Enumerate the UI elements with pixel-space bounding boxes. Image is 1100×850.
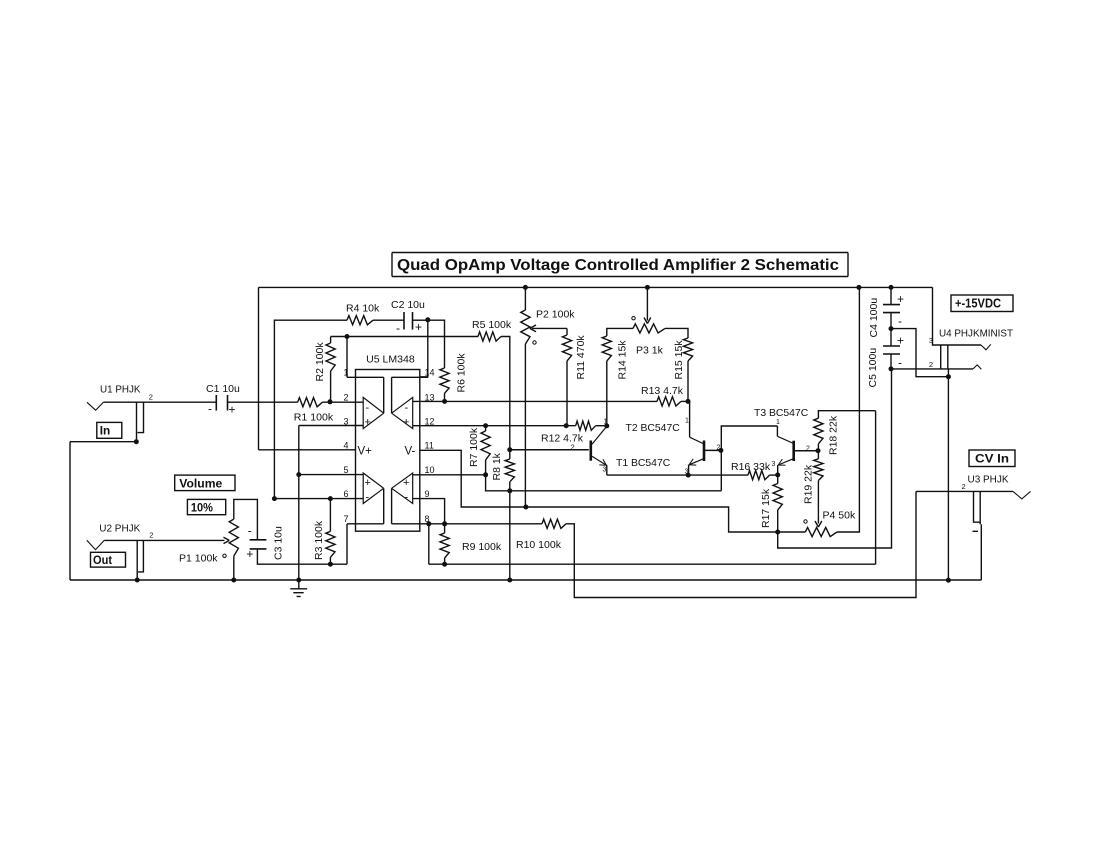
wire R10 row — [429, 523, 542, 525]
junction on top bus at C4 — [889, 285, 894, 290]
wire R7 bottom lead — [485, 460, 487, 475]
box CV In label — [969, 450, 1015, 467]
wire U4 pin3 — [933, 287, 982, 345]
wire T1 base row — [510, 449, 589, 451]
wire R8 bottom drop — [509, 491, 511, 580]
svg-text:-: - — [898, 314, 902, 328]
svg-text:1: 1 — [776, 419, 780, 426]
svg-text:C5 100u: C5 100u — [867, 348, 879, 388]
wire R9 top lead — [444, 524, 446, 533]
junction R9 bottom — [442, 562, 447, 567]
resistor R15 — [683, 338, 692, 361]
transistor T3 emitter — [778, 459, 794, 465]
wire T2 emitter lead — [688, 465, 690, 475]
wire P4 left lead — [778, 531, 806, 533]
wire R18 bottom lead — [817, 444, 819, 451]
resistor R8 — [505, 459, 514, 482]
U4 contact bar left — [940, 345, 942, 369]
junction C4/C5 mid — [889, 326, 894, 331]
T2 base stub — [704, 449, 721, 451]
P1 wiper mark — [223, 554, 226, 557]
P2 wiper arrow — [532, 327, 567, 329]
junction R8 bottom — [507, 488, 512, 493]
svg-text:-: - — [208, 402, 212, 416]
T3 base stub — [794, 450, 818, 452]
svg-text:R15 15k: R15 15k — [673, 340, 685, 380]
wire pin4 V+ row — [259, 449, 356, 451]
svg-text:+: + — [365, 477, 371, 489]
junction T2 base — [718, 448, 723, 453]
svg-text:+-15VDC: +-15VDC — [955, 297, 1001, 311]
U3 contact bar right — [979, 491, 981, 524]
svg-text:CV In: CV In — [975, 452, 1009, 466]
wire pin8 riser right — [875, 411, 877, 565]
U5 pin7 stub — [347, 523, 384, 525]
svg-text:+: + — [897, 334, 904, 348]
wire pin11 V- run — [420, 450, 778, 532]
junction R5/R8/T1 base — [507, 447, 512, 452]
wire R7 top lead — [485, 426, 487, 431]
svg-text:3: 3 — [603, 467, 607, 474]
svg-text:R13 4.7k: R13 4.7k — [641, 385, 684, 397]
junction ground on bus — [296, 578, 301, 583]
wire P1 top to C3 — [234, 499, 258, 539]
junction R17 bottom — [775, 530, 780, 535]
wire pin1 riser — [346, 337, 348, 378]
resistor R11 — [562, 335, 571, 361]
transistor T1 base bar — [589, 441, 592, 461]
svg-text:P1 100k: P1 100k — [179, 553, 218, 565]
resistor R5 — [478, 332, 501, 341]
wire T2 base riser — [721, 426, 777, 491]
capacitor C1 — [215, 395, 217, 411]
svg-text:14: 14 — [425, 368, 435, 378]
wire bus left drop to pin4 — [258, 287, 260, 449]
svg-text:-: - — [405, 402, 409, 414]
wire T1 emitter lead — [606, 465, 608, 475]
junction C2/pin14 — [425, 317, 430, 322]
junction CV/ground bus — [946, 578, 951, 583]
svg-text:1: 1 — [604, 419, 608, 426]
junction R16/T3/R17 — [775, 472, 780, 477]
junction P1 on bus — [231, 578, 236, 583]
potentiometer P2 — [521, 310, 530, 344]
wire pin8 lower run — [429, 563, 876, 565]
wire pin9 row — [413, 499, 445, 524]
resistor R17 — [773, 484, 782, 511]
connector U4 sleeve mark — [973, 365, 981, 369]
wire C1 to R1 — [228, 401, 298, 403]
svg-text:R5 100k: R5 100k — [472, 319, 512, 331]
box +-15VDC — [951, 295, 1013, 312]
P4 wiper arrow — [817, 481, 819, 524]
svg-text:2: 2 — [929, 360, 933, 369]
svg-text:R2 100k: R2 100k — [314, 342, 326, 382]
P4 wiper mark — [804, 520, 807, 523]
svg-text:P2 100k: P2 100k — [536, 309, 575, 321]
connector U1 jack mark — [87, 402, 103, 410]
svg-text:+: + — [897, 292, 904, 306]
wire In ground run — [70, 441, 137, 443]
svg-text:R9 100k: R9 100k — [462, 541, 502, 553]
potentiometer P3 — [633, 324, 665, 333]
wire R2-R5 row — [331, 336, 478, 338]
svg-text:R7 100k: R7 100k — [468, 427, 480, 467]
wire ground bus — [70, 579, 981, 581]
junction R11 bottom — [564, 423, 569, 428]
svg-text:+: + — [415, 320, 422, 334]
svg-text:+: + — [403, 477, 409, 489]
svg-text:13: 13 — [425, 392, 435, 402]
wire node to R6 top — [428, 320, 445, 368]
junction R1/R2 — [328, 399, 333, 404]
op-amp D triangle — [392, 397, 413, 428]
wire mid tap right — [891, 329, 948, 377]
svg-text:R17 15k: R17 15k — [760, 488, 772, 528]
junction pin6 corner — [272, 496, 277, 501]
junction R8 net on bus — [507, 578, 512, 583]
svg-text:6: 6 — [343, 489, 348, 499]
capacitor C3 — [250, 539, 267, 541]
svg-text:-: - — [366, 492, 370, 504]
svg-text:In: In — [100, 424, 111, 438]
wire R6 bottom lead — [444, 393, 446, 401]
resistor R10 — [542, 519, 566, 528]
wire R2 bottom lead — [330, 371, 332, 401]
wire R14 top lead — [607, 328, 633, 336]
svg-text:2: 2 — [343, 392, 348, 402]
U4 contact bar right — [947, 345, 949, 369]
junction R7 bottom — [483, 472, 488, 477]
transistor T3 base bar — [792, 441, 795, 461]
wire C4 to C5 — [890, 313, 892, 346]
U5 out column D — [391, 377, 393, 413]
svg-text:-: - — [366, 402, 370, 414]
P3 wiper arrow — [646, 287, 648, 320]
junction R3 bottom — [328, 562, 333, 567]
resistor R14 — [602, 336, 611, 361]
wire R7bot jog — [486, 475, 722, 491]
svg-text:10%: 10% — [191, 501, 213, 515]
svg-text:5: 5 — [343, 465, 348, 475]
wire R2 top lead — [330, 337, 332, 344]
label U3 pin1 number — [973, 530, 979, 532]
U5 pin14 stub — [392, 376, 428, 378]
op-amp A triangle — [363, 397, 384, 428]
wire P2 bottom lead — [524, 344, 526, 507]
svg-text:C1 10u: C1 10u — [206, 383, 240, 395]
resistor R2 — [326, 343, 335, 371]
wire CV feed run — [778, 369, 892, 548]
svg-text:R19 22k: R19 22k — [803, 464, 815, 504]
U5 out column B — [383, 488, 385, 524]
U2 contact bar left — [136, 540, 138, 580]
svg-text:R16 33k: R16 33k — [731, 461, 771, 473]
svg-text:2: 2 — [149, 393, 153, 402]
svg-text:1: 1 — [685, 418, 689, 425]
wire R10 right lead — [566, 491, 916, 597]
junction pin8 node — [426, 521, 431, 526]
svg-text:Volume: Volume — [179, 477, 222, 491]
svg-text:7: 7 — [343, 514, 348, 524]
wire R3 top lead — [329, 499, 331, 532]
svg-text:+: + — [229, 403, 236, 417]
svg-text:U3 PHJK: U3 PHJK — [968, 474, 1009, 486]
wire R12 right lead — [596, 425, 607, 427]
svg-text:T3 BC547C: T3 BC547C — [754, 407, 809, 419]
svg-text:P4 50k: P4 50k — [823, 510, 856, 522]
connector U2 jack mark — [87, 540, 105, 549]
resistor R12 — [576, 421, 596, 430]
junction on top bus at P2 — [523, 285, 528, 290]
junction on top bus at P3 wiper — [645, 285, 650, 290]
wire R8 top lead — [509, 450, 511, 459]
resistor R1 — [298, 398, 323, 407]
wire pin6 row — [274, 498, 363, 500]
wire pin5 row — [299, 474, 363, 476]
wire T3 emitter lead — [777, 465, 779, 475]
svg-text:U5 LM348: U5 LM348 — [366, 354, 415, 366]
svg-text:T1 BC547C: T1 BC547C — [616, 457, 671, 469]
resistor R9 — [440, 533, 449, 558]
wire P4 right lead — [837, 287, 859, 532]
wire P3 right lead — [665, 328, 688, 338]
svg-text:U2 PHJK: U2 PHJK — [99, 523, 140, 535]
wire pin13 row — [413, 400, 657, 402]
junction R9 top — [442, 521, 447, 526]
junction U2 bar on bus — [135, 578, 140, 583]
transistor T3 collector — [776, 426, 778, 436]
svg-text:4: 4 — [343, 441, 348, 451]
wire R13 right lead — [681, 400, 688, 402]
junction R6/pin13 — [442, 399, 447, 404]
svg-text:1: 1 — [343, 368, 348, 378]
svg-text:2: 2 — [962, 482, 966, 491]
svg-text:R4 10k: R4 10k — [346, 303, 380, 315]
wire left edge drop — [69, 442, 71, 580]
svg-text:R14 15k: R14 15k — [617, 340, 629, 380]
junction R13/R15/T2 — [686, 399, 691, 404]
svg-text:9: 9 — [425, 489, 430, 499]
wire pin3 ground drop — [298, 426, 300, 581]
resistor R19 — [814, 459, 823, 481]
wire U1 to C1 — [103, 401, 216, 403]
svg-text:R1 100k: R1 100k — [294, 412, 334, 424]
svg-text:R8 1k: R8 1k — [491, 452, 503, 480]
title box — [392, 253, 848, 277]
wire pin3 row — [299, 425, 363, 427]
P3 wiper mark — [632, 317, 635, 320]
wire R3 bottom lead — [329, 557, 331, 564]
resistor R4 — [347, 316, 373, 325]
svg-text:V+: V+ — [358, 446, 373, 458]
wire C2 to pin14 node — [413, 319, 428, 321]
wire R15 bottom lead — [687, 361, 689, 401]
wire +15V top bus — [259, 286, 933, 288]
U1 contact bar left — [136, 402, 138, 442]
svg-text:R18 22k: R18 22k — [828, 415, 840, 455]
svg-text:C3 10u: C3 10u — [273, 526, 285, 560]
svg-text:+: + — [365, 417, 371, 429]
wire R16 right lead — [770, 474, 778, 476]
wire R1 to pin2 — [322, 401, 363, 403]
box In label — [97, 422, 122, 438]
box Volume label — [175, 475, 235, 491]
wire R5 right drop — [501, 337, 510, 450]
svg-text:-: - — [396, 321, 400, 335]
svg-text:+: + — [403, 417, 409, 429]
U2 contact bar right — [138, 540, 143, 572]
svg-text:R11 470k: R11 470k — [575, 335, 587, 380]
resistor R13 — [657, 397, 681, 406]
svg-text:Out: Out — [93, 553, 112, 567]
wire R8 bottom lead — [509, 482, 511, 491]
U3 contact bar left — [974, 491, 981, 522]
junction T2 emitter — [686, 473, 691, 478]
wire R14 bottom lead — [606, 361, 608, 426]
wire C3 bottom / pin7 run — [257, 549, 347, 564]
box Out label — [91, 552, 126, 567]
connector U4 tip mark — [981, 344, 991, 350]
wire R18 top lead — [818, 411, 875, 419]
junction R7 top — [483, 423, 488, 428]
potentiometer P1 — [229, 519, 238, 556]
wire R11 top lead — [566, 328, 568, 335]
svg-text:U1 PHJK: U1 PHJK — [100, 384, 141, 396]
wire T2 collector lead — [689, 401, 691, 437]
wire pin10 row — [413, 474, 486, 476]
wire U3 pin2 row — [916, 490, 1013, 492]
resistor R6 — [440, 368, 449, 393]
capacitor C5 — [883, 345, 900, 347]
wire P2 top lead — [524, 287, 526, 310]
junction C5 bottom — [889, 366, 894, 371]
junction R12/R14/T1 — [604, 423, 609, 428]
svg-text:-: - — [248, 524, 252, 538]
wire ground below bus — [298, 580, 300, 589]
junction T3 base — [816, 448, 821, 453]
transistor T2 base bar — [703, 441, 706, 462]
P1 wiper arrow — [224, 537, 230, 540]
svg-text:2: 2 — [571, 445, 575, 452]
capacitor C4 — [883, 304, 900, 306]
junction pin5 tap — [296, 472, 301, 477]
wire R4 left lead — [274, 320, 347, 498]
svg-text:U4 PHJKMINIST: U4 PHJKMINIST — [939, 328, 1014, 340]
wire C5 bottom lead — [890, 354, 892, 369]
wire pin12 row — [413, 425, 576, 427]
wire R17 bottom lead — [777, 510, 779, 532]
P2 wiper mark — [533, 341, 536, 344]
svg-text:T2 BC547C: T2 BC547C — [626, 422, 681, 434]
resistor R3 — [326, 531, 335, 557]
wire R19 top lead — [817, 451, 819, 459]
junction on top bus right — [856, 285, 861, 290]
svg-text:3: 3 — [772, 461, 776, 468]
svg-text:3: 3 — [929, 336, 933, 345]
svg-text:P3 1k: P3 1k — [636, 345, 664, 357]
svg-text:V-: V- — [405, 446, 416, 458]
wire U3 to ground bus — [980, 524, 982, 580]
wire R17 top lead — [777, 475, 779, 484]
svg-text:11: 11 — [425, 441, 434, 451]
svg-text:C4 100u: C4 100u — [868, 298, 880, 338]
transistor T1 collector — [592, 426, 607, 444]
svg-text:Quad OpAmp Voltage Controlled: Quad OpAmp Voltage Controlled Amplifier … — [397, 257, 839, 274]
resistor R16 — [748, 471, 770, 480]
svg-text:-: - — [405, 492, 409, 504]
op-amp B triangle — [363, 473, 384, 504]
resistor R18 — [814, 418, 823, 444]
svg-text:-: - — [898, 356, 902, 370]
capacitor C2 — [403, 312, 405, 330]
wire P1 bottom lead — [233, 556, 235, 580]
ground symbol — [290, 588, 307, 590]
wire R11 bottom lead — [566, 361, 568, 426]
wire pin8 drop — [428, 524, 430, 564]
transistor T2 emitter — [689, 459, 704, 465]
wire pin7 drop — [346, 524, 348, 564]
junction R3 top — [328, 496, 333, 501]
svg-text:+: + — [246, 547, 253, 561]
wire U4 down to CV net — [947, 369, 949, 580]
svg-text:R10 100k: R10 100k — [516, 539, 562, 551]
junction U4 jog — [946, 374, 951, 379]
U5 pin1 stub — [347, 376, 384, 378]
transistor T1 emitter — [592, 456, 606, 465]
wire U2 to P1 wiper — [104, 539, 224, 541]
junction pin1 riser — [345, 334, 350, 339]
svg-text:2: 2 — [149, 531, 153, 540]
wire emitter run — [607, 474, 748, 476]
op-amp U5 body — [356, 370, 420, 532]
potentiometer P4 — [805, 527, 837, 536]
wire bus to C4 — [890, 287, 892, 304]
box 10% label — [187, 499, 225, 514]
svg-text:10: 10 — [425, 465, 435, 475]
svg-text:R6 100k: R6 100k — [456, 353, 468, 393]
svg-text:R12 4.7k: R12 4.7k — [541, 433, 584, 445]
connector U3 jack mark — [1013, 491, 1031, 499]
wire U4 pin2 row — [891, 368, 973, 370]
U5 out column C — [391, 488, 393, 524]
wire pin14 drop — [420, 320, 428, 377]
wire R4 to C2 — [373, 319, 404, 321]
transistor T2 collector — [690, 437, 704, 444]
op-amp C triangle — [392, 473, 413, 504]
junction P2 on V- rail — [523, 505, 528, 510]
U5 pin8 stub — [392, 523, 429, 525]
U5 out column A — [383, 377, 385, 413]
junction U1 bar/ground wire — [134, 439, 139, 444]
resistor R7 — [481, 431, 490, 460]
svg-text:R3 100k: R3 100k — [313, 520, 325, 560]
wire R9 bottom lead — [444, 558, 446, 564]
svg-text:C2 10u: C2 10u — [391, 299, 425, 311]
U1 contact bar right — [138, 402, 144, 432]
